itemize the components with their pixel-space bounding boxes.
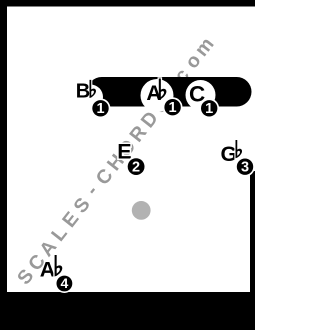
border top <box>0 0 255 7</box>
svg-text:1: 1 <box>169 100 177 116</box>
svg-text:4: 4 <box>61 275 69 291</box>
finger disc 2 <box>126 157 146 177</box>
svg-text:2: 2 <box>132 159 140 175</box>
svg-text:3: 3 <box>241 160 249 176</box>
note label B-flat halo <box>76 80 96 103</box>
finger disc 1 (Bb) <box>91 98 111 118</box>
svg-text:1: 1 <box>205 101 213 117</box>
border left <box>0 0 7 330</box>
svg-text:A: A <box>40 258 56 282</box>
knockout circle A-flat <box>141 79 174 112</box>
knockout circle C <box>186 80 216 110</box>
note label A-flat halo <box>146 79 166 106</box>
finger disc 1 (Ab) <box>163 97 183 117</box>
finger disc 4 <box>55 274 74 293</box>
barre bar <box>87 77 252 107</box>
knockout circle B-flat <box>78 85 103 110</box>
border bottom <box>0 292 255 330</box>
svg-text:B: B <box>76 81 90 103</box>
watermark SCALES-CHORDS.com <box>13 33 218 289</box>
svg-text:1: 1 <box>96 101 104 117</box>
border right partial <box>250 171 255 330</box>
note label G-flat <box>221 140 243 166</box>
note label A-flat (bottom) <box>40 255 63 282</box>
finger disc 3 <box>235 157 255 177</box>
gray dot (muted string) <box>132 201 151 220</box>
finger disc 1 (C) <box>199 98 219 118</box>
